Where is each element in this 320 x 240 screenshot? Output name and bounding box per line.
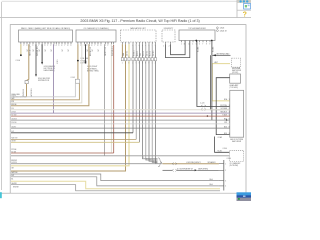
svg-text:SPEAKER: SPEAKER xyxy=(208,161,217,164)
svg-text:C-310: C-310 xyxy=(227,158,231,160)
navigation unit U3 dashed box xyxy=(121,30,157,42)
svg-text:ANT: ANT xyxy=(215,61,218,64)
wire bundle 4 xyxy=(143,44,158,159)
connector C-105 symbol xyxy=(75,79,79,83)
svg-text:?: ? xyxy=(243,12,247,19)
svg-text:GE 0.5: GE 0.5 xyxy=(146,51,148,56)
wire WHT U2 to bus C xyxy=(11,44,82,103)
bottom connector pins xyxy=(225,163,226,187)
svg-text:4: 4 xyxy=(56,45,57,47)
svg-text:GE/RT: GE/RT xyxy=(11,141,16,143)
speaker cable tan xyxy=(163,163,219,165)
svg-text:2: 2 xyxy=(155,56,156,58)
svg-text:2: 2 xyxy=(155,63,156,65)
bottom connector pin stubs xyxy=(219,164,224,186)
svg-text:RT/BR: RT/BR xyxy=(11,151,17,153)
svg-text:5: 5 xyxy=(58,45,59,47)
wire bundle 3 to bus M xyxy=(138,44,140,142)
splice dot S1 xyxy=(20,54,22,56)
svg-text:ANTENNA LEAD: ANTENNA LEAD xyxy=(217,52,231,55)
U2 pin ticks xyxy=(78,42,114,44)
svg-text:SW/GE: SW/GE xyxy=(13,187,19,189)
bus wire P GRY xyxy=(11,163,162,165)
bottom photo thumb xyxy=(237,192,252,201)
svg-text:2: 2 xyxy=(80,45,81,47)
U3 pin ticks xyxy=(122,42,155,44)
U1 pin numbers xyxy=(20,45,71,47)
bus wire K BLK xyxy=(11,132,133,134)
svg-text:5: 5 xyxy=(136,56,137,58)
amplifier U5 box xyxy=(179,30,215,41)
svg-text:BR/SW: BR/SW xyxy=(11,160,17,162)
U5 pin numbers xyxy=(181,43,212,45)
svg-text:8: 8 xyxy=(67,45,68,47)
U7 pin labels xyxy=(220,98,230,135)
svg-text:SW/GE 0.5: SW/GE 0.5 xyxy=(37,47,39,56)
svg-text:3: 3 xyxy=(229,133,230,135)
wire RED U2 long xyxy=(113,45,115,153)
U2 pin numbers xyxy=(77,45,114,47)
wire VIO from U1 down-left bus xyxy=(53,44,55,113)
CD changer trunk dashed box U8 xyxy=(230,150,244,161)
inline connectors on speaker wires xyxy=(172,163,177,172)
svg-text:6: 6 xyxy=(61,45,62,47)
svg-text:SW 0.5: SW 0.5 xyxy=(134,50,136,56)
junction dot near U7 xyxy=(226,119,228,121)
wire bundle 5 xyxy=(146,44,158,160)
page background xyxy=(0,0,251,201)
inline connector mid C-120 xyxy=(201,105,206,111)
svg-text:1: 1 xyxy=(152,63,153,65)
wire from U5-b to antenna arrow xyxy=(211,41,213,56)
bus wire U YEL xyxy=(11,181,220,189)
svg-text:RADIO, 2 AND 3 (BASE) (LEFT SI: RADIO, 2 AND 3 (BASE) (LEFT SIDE OF DASH… xyxy=(21,27,70,30)
U1 pin wire labels xyxy=(27,48,70,51)
main right amplifier box U7 xyxy=(230,90,244,137)
svg-text:GR/SW: GR/SW xyxy=(11,118,17,120)
svg-text:3: 3 xyxy=(229,105,230,107)
svg-text:BL 0.5: BL 0.5 xyxy=(150,51,152,56)
svg-text:4: 4 xyxy=(86,45,87,47)
wire GRY U2 long xyxy=(103,44,105,156)
svg-text:2: 2 xyxy=(225,170,226,172)
svg-text:5: 5 xyxy=(136,63,137,65)
bus wire E WHT xyxy=(11,109,230,111)
legend symbols xyxy=(217,27,227,33)
top right chrome column xyxy=(237,0,251,19)
wire from U5-a down xyxy=(197,41,230,107)
svg-text:CD CHANGER (C1 CHANNEL): CD CHANGER (C1 CHANNEL) xyxy=(83,27,109,30)
page left edge xyxy=(1,2,3,190)
svg-text:1: 1 xyxy=(152,56,153,58)
wire BLK from U1 with arrow A1 xyxy=(41,44,43,62)
bus wire M YEL xyxy=(11,141,139,143)
svg-text:DISTRIBUTION: DISTRIBUTION xyxy=(38,80,50,82)
U5 pin ticks xyxy=(182,41,212,43)
wire U4 inner U xyxy=(171,41,186,55)
bottom cyan mark left xyxy=(0,192,2,198)
svg-text:BR 0.5: BR 0.5 xyxy=(137,51,139,56)
wire U4 outer U xyxy=(166,41,190,58)
bus wire I WHT xyxy=(11,123,230,125)
wire bundle 7 xyxy=(152,44,157,162)
svg-text:(ROOF): (ROOF) xyxy=(232,72,238,74)
svg-text:9: 9 xyxy=(70,45,71,47)
svg-text:BL: BL xyxy=(11,179,13,181)
title bar bottom edge xyxy=(0,17,251,19)
wire TAN U3-1 xyxy=(121,44,123,61)
svg-text:KOAX: KOAX xyxy=(197,46,200,52)
wire NAT U3 tan long xyxy=(11,44,126,171)
splice box S300 xyxy=(25,81,28,84)
connector row numbers xyxy=(122,56,156,65)
svg-text:7: 7 xyxy=(38,45,39,47)
wire bundle 1 to bus K xyxy=(132,44,134,133)
bus wire S xyxy=(11,174,219,181)
wire NAT from U1 xyxy=(27,44,29,80)
svg-text:3: 3 xyxy=(150,160,151,162)
U1 pin ticks xyxy=(21,42,71,44)
svg-text:S204, SEE PWR: S204, SEE PWR xyxy=(38,78,51,80)
svg-text:5: 5 xyxy=(32,45,33,47)
junction dot U5-b xyxy=(211,40,213,42)
antenna tuner U4 dashed box xyxy=(162,30,175,42)
svg-text:RT/GE: RT/GE xyxy=(11,149,17,151)
svg-text:GE 0.5: GE 0.5 xyxy=(126,51,128,56)
svg-text:4: 4 xyxy=(225,186,226,188)
svg-text:1: 1 xyxy=(229,99,230,101)
svg-text:7: 7 xyxy=(94,45,95,47)
bus wire T xyxy=(11,177,219,186)
svg-text:C-120: C-120 xyxy=(200,103,204,105)
svg-text:3: 3 xyxy=(225,180,226,182)
CD changer U2 box xyxy=(76,30,116,42)
wire bundle 6 xyxy=(149,44,158,161)
svg-text:WS/GE: WS/GE xyxy=(11,122,16,124)
wire BLK U2 with arrow A2 xyxy=(85,44,87,61)
svg-text:1: 1 xyxy=(122,63,123,65)
svg-text:NAT: NAT xyxy=(11,97,14,100)
wire bundle 8 xyxy=(155,44,157,163)
head amp box U6 xyxy=(230,74,241,83)
svg-text:LOW FREQUENCY: LOW FREQUENCY xyxy=(186,162,202,164)
wire YEL from U1 pin xyxy=(20,44,22,54)
svg-text:1: 1 xyxy=(225,163,226,165)
bus wire V xyxy=(11,185,220,191)
svg-text:6: 6 xyxy=(91,45,92,47)
svg-text:RT/SW: RT/SW xyxy=(11,114,17,116)
svg-text:(TOP-HIFI): (TOP-HIFI) xyxy=(230,87,239,89)
bus wire H GRY xyxy=(11,119,230,121)
inline connector row C-210 xyxy=(121,58,156,61)
bus wire O GRY long xyxy=(11,155,230,157)
svg-text:1: 1 xyxy=(163,46,164,48)
svg-text:GR 0.5: GR 0.5 xyxy=(153,51,155,56)
svg-text:(IN TRUNK): (IN TRUNK) xyxy=(230,165,239,167)
svg-text:GR/RT: GR/RT xyxy=(11,126,16,128)
wire below U7 to CD box xyxy=(215,137,230,153)
svg-text:C-105: C-105 xyxy=(71,77,75,79)
svg-text:◄ A06 18: ◄ A06 18 xyxy=(219,30,226,33)
wire YEL antenna feed xyxy=(212,64,230,101)
svg-text:2: 2 xyxy=(169,46,170,48)
svg-text:AMPLIFIER): AMPLIFIER) xyxy=(198,168,208,171)
svg-text:WS: WS xyxy=(11,108,14,110)
svg-text:7: 7 xyxy=(64,45,65,47)
bus wire G RED xyxy=(11,115,230,117)
U2 pin wire labels xyxy=(87,48,100,51)
bus wire F VIO xyxy=(11,112,230,114)
wire to MC4 with dot xyxy=(211,55,213,120)
svg-text:8: 8 xyxy=(97,45,98,47)
svg-text:9: 9 xyxy=(100,45,101,47)
speaker cable blk xyxy=(163,162,173,170)
svg-text:RT 0.5: RT 0.5 xyxy=(143,51,145,56)
svg-text:SW/WS: SW/WS xyxy=(11,162,17,164)
svg-text:GR/RT 0.5: GR/RT 0.5 xyxy=(105,47,107,56)
svg-text:MC4: MC4 xyxy=(224,133,227,135)
svg-text:AMPLIFIER: AMPLIFIER xyxy=(232,140,242,143)
svg-text:WS/RT: WS/RT xyxy=(11,95,16,97)
wire WHT from C-105 to bus A xyxy=(11,83,75,97)
bus wire N RED xyxy=(11,152,114,154)
svg-text:3: 3 xyxy=(84,45,85,47)
U4 connector marks xyxy=(163,45,165,47)
bottom connector edge C-310 xyxy=(223,160,225,191)
svg-text:(LOUDSPEAKER W/: (LOUDSPEAKER W/ xyxy=(177,168,193,171)
wire WHT U2 long xyxy=(110,44,112,152)
svg-text:VI 0.5: VI 0.5 xyxy=(57,60,59,64)
svg-text:2: 2 xyxy=(50,45,51,47)
wire NAT from C-105 to bus B xyxy=(11,83,79,100)
svg-text:NAT/GE 0.5: NAT/GE 0.5 xyxy=(29,46,32,56)
bundle brace xyxy=(158,158,162,167)
wire YEL U3 long xyxy=(11,44,129,166)
svg-text:BR/GE 0.5: BR/GE 0.5 xyxy=(90,47,92,56)
svg-text:◄ A06: ◄ A06 xyxy=(219,27,224,30)
bus wire L NAT xyxy=(11,138,136,140)
svg-text:4: 4 xyxy=(153,161,154,163)
bus wire J GRY xyxy=(11,127,230,129)
svg-text:6: 6 xyxy=(139,56,140,58)
diagram frame xyxy=(10,25,246,194)
radio unit U1 box xyxy=(19,30,73,42)
junction dot U5-a xyxy=(195,40,197,42)
svg-text:9: 9 xyxy=(44,45,45,47)
svg-text:VI/SW: VI/SW xyxy=(11,111,16,113)
svg-text:1: 1 xyxy=(47,45,48,47)
wire NAT U2 pin1 with splice dot xyxy=(77,44,79,79)
wire bundle 2 to bus L xyxy=(135,44,137,139)
svg-text:2003 BMW X5 Fig. 117 - Premium: 2003 BMW X5 Fig. 117 - Premium Radio Cir… xyxy=(80,19,199,23)
svg-text:6: 6 xyxy=(139,63,140,65)
antenna lead arrow xyxy=(212,54,217,56)
svg-text:C-104: C-104 xyxy=(16,60,21,62)
U4 pin ticks xyxy=(166,42,171,44)
svg-text:3: 3 xyxy=(26,45,27,47)
U3 pin numbers xyxy=(122,45,156,47)
title panel top edge xyxy=(2,0,238,2)
antenna amplifier dashed box xyxy=(232,58,241,67)
bottom frame extension xyxy=(2,192,11,194)
svg-text:BR/GE: BR/GE xyxy=(11,104,17,106)
svg-text:KOAX: KOAX xyxy=(212,46,215,52)
svg-text:NAVIGATION UNIT: NAVIGATION UNIT xyxy=(130,27,146,30)
svg-text:TOP-HIFI AMPLIFIER: TOP-HIFI AMPLIFIER xyxy=(188,27,206,30)
svg-text:C-300: C-300 xyxy=(223,148,227,150)
svg-text:NAT: NAT xyxy=(122,53,125,56)
wire U6 feed xyxy=(216,78,230,135)
junction dot on red wire xyxy=(207,115,209,117)
svg-text:2: 2 xyxy=(23,45,24,47)
svg-text:2: 2 xyxy=(107,45,108,47)
svg-text:1: 1 xyxy=(122,56,123,58)
wire NAT U2 to bus D xyxy=(11,44,89,106)
